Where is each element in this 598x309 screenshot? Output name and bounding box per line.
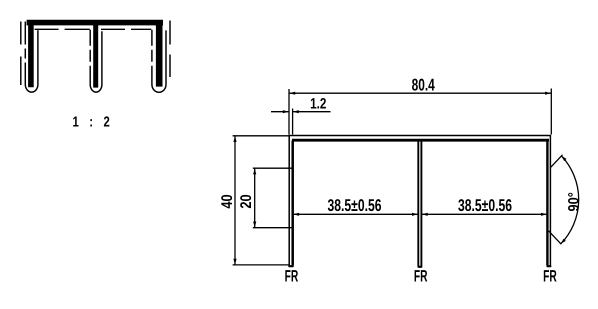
svg-text:FR: FR (414, 267, 428, 285)
svg-text:40: 40 (219, 194, 236, 208)
svg-text:1.2: 1.2 (310, 96, 326, 113)
svg-text:38.5±0.56: 38.5±0.56 (458, 196, 512, 215)
svg-text:FR: FR (543, 267, 557, 285)
svg-text:38.5±0.56: 38.5±0.56 (328, 196, 382, 215)
svg-text:80.4: 80.4 (412, 76, 436, 95)
svg-text:FR: FR (285, 267, 299, 285)
svg-text:1 : 2: 1 : 2 (73, 114, 114, 130)
svg-text:20: 20 (238, 194, 255, 208)
svg-text:90°: 90° (566, 192, 583, 211)
